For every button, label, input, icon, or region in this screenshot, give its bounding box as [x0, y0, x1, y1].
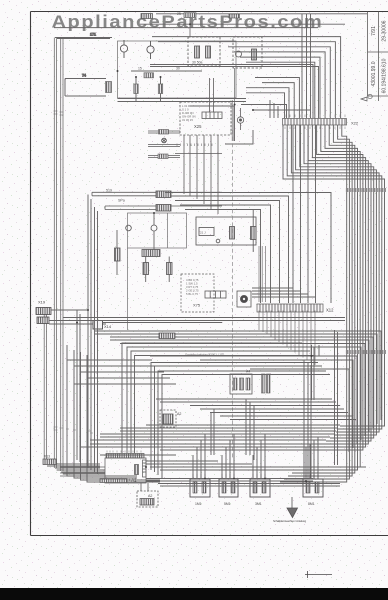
wire mid h4	[95, 334, 377, 424]
wire fan f2	[291, 125, 379, 432]
pin strip	[106, 454, 144, 459]
wire nest n7	[162, 375, 330, 479]
wire mid h6	[110, 340, 369, 432]
wire bw5	[100, 436, 330, 438]
wire number ticks	[54, 111, 64, 115]
wire nest n2	[131, 351, 310, 453]
switch block S5	[199, 228, 214, 236]
contact S1	[195, 46, 200, 58]
wire bus b3	[234, 52, 325, 118]
enclosure box top assembly	[118, 41, 237, 98]
wire vertical pair mid-right	[335, 330, 338, 465]
connector X7	[142, 250, 160, 257]
svg-text:X75: X75	[193, 303, 201, 308]
wire number ticks on left bundle	[54, 427, 94, 433]
timer box U1	[196, 217, 256, 245]
wire mid h3	[95, 331, 381, 420]
wire turn t6	[63, 473, 105, 475]
relay block A4	[230, 370, 270, 395]
wire fan f4	[300, 125, 374, 438]
svg-text:X25: X25	[194, 124, 202, 129]
wire drops from X25	[184, 135, 218, 214]
wire rail m3	[180, 205, 271, 303]
connector X5	[156, 191, 171, 198]
wire nest n0	[122, 343, 302, 453]
wire vertical pair at K4 left	[232, 68, 234, 141]
wire bus b1	[158, 42, 335, 118]
wire uw1	[156, 398, 332, 400]
relay A3	[160, 410, 181, 427]
wire drops from top rail	[302, 14, 311, 119]
wire bw11	[160, 469, 296, 471]
svg-text:30: 30	[176, 67, 180, 71]
connector on bar1	[159, 130, 169, 135]
wire drop to M3	[253, 434, 265, 474]
wire fan f8	[314, 125, 363, 450]
wire bw8	[80, 446, 318, 448]
svg-text:3M1: 3M1	[255, 502, 262, 506]
svg-text:21 J: 21 J	[200, 231, 206, 235]
wire from X19	[49, 310, 106, 324]
wire lv3	[94, 207, 96, 472]
svg-text:8M1: 8M1	[308, 502, 315, 506]
watermark AppliancePartsPros.com	[52, 12, 324, 32]
wire bus b4	[240, 57, 320, 118]
lamp E3	[236, 51, 242, 57]
wire bus b6	[150, 65, 313, 119]
resistor R3	[143, 263, 149, 275]
wire nest n1	[127, 347, 306, 453]
wire: rail y24	[140, 23, 345, 25]
crossed node symbol	[162, 138, 167, 143]
wire bus b9	[262, 83, 294, 118]
contact S2	[206, 46, 211, 58]
svg-text:171: 171	[90, 33, 96, 37]
pin node N1	[237, 108, 243, 130]
wire nest n5	[155, 366, 323, 472]
wire drop from K2b	[189, 18, 191, 38]
connector X13	[43, 455, 56, 465]
wires into A1 left	[60, 467, 105, 476]
svg-text:74: 74	[82, 74, 86, 78]
wire bw10	[150, 466, 366, 468]
wire rail m2	[175, 201, 280, 304]
wire nest n4	[151, 363, 318, 471]
wire lv1	[87, 195, 89, 469]
fuse F1	[134, 84, 138, 94]
wire bw12	[146, 479, 340, 487]
wire turn t1	[45, 463, 100, 464]
wire fan f12	[288, 125, 352, 476]
wire lv5	[76, 310, 78, 460]
wire: loop to resistor R1	[65, 79, 106, 97]
connector X22	[283, 115, 359, 130]
connector X75	[205, 291, 226, 298]
pump motor B2	[126, 225, 132, 231]
wire uw5	[210, 412, 348, 414]
svg-text:A2: A2	[148, 494, 152, 498]
wire lv6	[79, 314, 81, 462]
black film edge bar	[0, 588, 388, 600]
wire bus b5	[246, 62, 315, 118]
wire bus b2	[228, 47, 330, 118]
wire fan f7	[312, 125, 365, 447]
wire: rail under frame top	[156, 13, 367, 15]
wire drops below X12	[259, 311, 315, 366]
connector K1	[141, 14, 153, 19]
svg-text:31 30 15: 31 30 15	[182, 118, 193, 122]
wire mid h9	[150, 345, 357, 452]
wire fan f5	[304, 125, 371, 441]
contact S3	[252, 49, 257, 60]
wire fan f6	[308, 125, 368, 444]
wire turn t4	[57, 469, 105, 471]
svg-text:X22: X22	[351, 121, 359, 126]
wire: left pair C down	[44, 307, 46, 464]
enclosure partition and drop	[128, 213, 168, 330]
wire left join j1	[67, 345, 160, 482]
fuse F2	[158, 84, 162, 94]
resistor R4	[167, 263, 173, 275]
resistor R1	[106, 82, 112, 93]
wire fan f10	[296, 125, 358, 470]
wire bus c2	[246, 93, 285, 118]
wire left corner turns	[67, 360, 176, 384]
svg-text:29-30006: 29-30006	[382, 20, 388, 41]
module A2	[137, 483, 158, 507]
contact S4	[230, 227, 235, 240]
lamp E2	[147, 41, 154, 59]
warning triangle	[273, 497, 307, 523]
svg-text:30 50a: 30 50a	[192, 61, 202, 65]
connector bars right of A4	[262, 374, 266, 393]
wire: top-left horizontal pair	[55, 38, 112, 39]
pump motor B1	[151, 225, 157, 231]
wire fan f11	[292, 125, 355, 473]
wire: left pair B down	[61, 38, 63, 472]
wire corner turns to X75	[252, 288, 316, 297]
svg-text:X14: X14	[104, 324, 112, 329]
relay box K3 (dashed)	[188, 37, 220, 66]
svg-text:25: 25	[177, 12, 181, 16]
wire fan f3	[296, 125, 377, 435]
svg-text:60.194/198.610: 60.194/198.610	[382, 58, 388, 93]
wire mid h8	[130, 347, 361, 440]
node dot	[216, 239, 220, 243]
wire turn t5	[61, 471, 105, 473]
pin block P1	[202, 112, 222, 119]
lamp E1	[120, 40, 127, 58]
dashed centre line	[232, 130, 234, 458]
wire bw7	[90, 443, 322, 445]
wire drop to M1	[193, 434, 205, 474]
wire gauge table	[186, 278, 199, 296]
wire drops weave	[211, 399, 254, 460]
motor M1	[190, 474, 210, 506]
bottom pin strip	[100, 479, 127, 483]
wire bus b8	[255, 78, 299, 119]
svg-text:15: 15	[138, 67, 142, 71]
title block	[368, 12, 388, 102]
wire tick labels on right bundle	[347, 188, 385, 354]
svg-text:A4: A4	[246, 370, 250, 374]
wire fan f1	[287, 125, 382, 429]
wire lv2	[90, 199, 92, 470]
svg-text:SPa: SPa	[118, 199, 125, 203]
wire uw2	[160, 401, 336, 403]
wire uw6	[220, 415, 352, 417]
connector X6	[156, 205, 171, 212]
wire nest n6	[158, 371, 326, 475]
wire feed bar3	[148, 156, 180, 158]
svg-text:7/91: 7/91	[371, 26, 377, 36]
wire bus b0	[152, 37, 341, 118]
pin ticks under X25	[177, 144, 212, 147]
wire rail m1	[170, 196, 289, 303]
wire uw3	[190, 405, 340, 407]
wire: left pair A down	[54, 38, 56, 469]
wire X22 pin drops	[293, 125, 316, 303]
X25 left feeds	[148, 130, 180, 159]
wire nest n3	[135, 356, 315, 454]
wire drops above X12	[259, 246, 315, 365]
motor M3	[250, 474, 270, 506]
motor M5	[237, 291, 251, 307]
svg-text:5 BL 0,75: 5 BL 0,75	[186, 292, 198, 296]
wire feed bar2	[148, 145, 180, 147]
wire mid h7	[120, 344, 365, 437]
inner part	[135, 465, 139, 475]
motor M2	[219, 474, 238, 506]
wire uw4	[200, 408, 344, 410]
wire drop d1	[270, 100, 278, 118]
pin number ticks above A1	[107, 451, 141, 453]
wire X14 right	[103, 322, 223, 324]
wire mid h2	[63, 320, 345, 322]
resistor R5	[251, 210, 257, 252]
wire feed with connector X4	[131, 67, 202, 102]
svg-text:1M1: 1M1	[195, 502, 202, 506]
wire mid h5	[110, 337, 373, 428]
bottom-right registration mark	[305, 571, 332, 578]
X75 dashed enclosure	[181, 274, 214, 312]
wire rail m4	[185, 210, 261, 304]
svg-text:X12: X12	[326, 308, 334, 313]
svg-text:A2: A2	[177, 412, 181, 416]
wire to X5	[92, 192, 222, 196]
wire: rail under watermark	[54, 27, 318, 29]
wire bw4	[100, 433, 334, 435]
wire fan f0	[283, 125, 385, 426]
projection symbol	[361, 94, 372, 101]
svg-text:5M1: 5M1	[224, 502, 231, 506]
wire bw6	[90, 439, 326, 441]
resistor R2	[115, 248, 121, 261]
upper weave band	[156, 399, 356, 460]
wire drop to M2	[222, 434, 234, 474]
wire drop to M4	[304, 360, 318, 479]
wire to X6	[105, 206, 222, 210]
svg-text:43001.99.0: 43001.99.0	[371, 61, 377, 86]
wire feed bar1	[148, 131, 180, 133]
wire bus c1	[246, 88, 289, 118]
svg-text:519: 519	[106, 189, 112, 193]
A1 box	[105, 458, 146, 483]
svg-text:+ A1: + A1	[128, 478, 137, 483]
connector K2	[184, 13, 196, 18]
svg-text:X13: X13	[44, 455, 50, 459]
connector on bar3	[158, 154, 168, 159]
connector K2b	[229, 14, 240, 18]
wire bus b7	[150, 67, 319, 119]
connector X16	[159, 333, 175, 339]
left outer vline group	[77, 195, 98, 475]
wire fan f9	[300, 125, 360, 467]
relay box K4 (dashed)	[233, 37, 262, 68]
wire bw13	[100, 455, 252, 464]
wire uw7	[230, 419, 356, 421]
wire mid h1	[63, 317, 345, 319]
wire bw1	[146, 424, 340, 426]
wire rail m0	[165, 193, 331, 304]
wire bw9	[160, 449, 314, 451]
motor M4	[303, 474, 323, 506]
svg-text:Schaltplan beachten / Anleitun: Schaltplan beachten / Anleitung	[273, 519, 307, 523]
wire turn t3	[55, 467, 100, 469]
svg-text:X19: X19	[38, 300, 46, 305]
wire fan f14	[280, 125, 347, 482]
module text rows	[182, 104, 196, 122]
wire bw3	[120, 430, 336, 432]
wire L-path over module	[118, 68, 311, 144]
wire fan f13	[284, 125, 349, 479]
wire bw2	[120, 427, 338, 429]
connector X14	[93, 321, 222, 330]
wire turn t2	[47, 465, 100, 467]
enclosure box around motors	[128, 213, 187, 248]
wire lv4	[97, 211, 99, 474]
